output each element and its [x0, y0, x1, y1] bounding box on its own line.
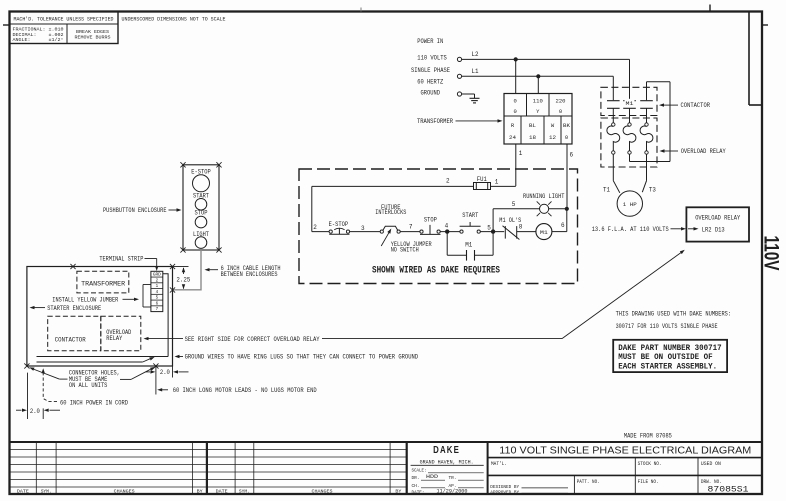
svg-text:110V: 110V — [760, 236, 783, 271]
svg-text:SCALE:: SCALE: — [412, 468, 427, 474]
svg-text:EACH STARTER ASSEMBLY.: EACH STARTER ASSEMBLY. — [618, 362, 717, 371]
svg-text:SYM.: SYM. — [239, 488, 250, 494]
svg-text:MACH'D. TOLERANCE UNLESS SPECI: MACH'D. TOLERANCE UNLESS SPECIFIED — [14, 17, 114, 23]
drawing usage note — [616, 311, 732, 331]
wire node2 to e-stop — [312, 231, 329, 233]
material / stock row — [488, 458, 762, 476]
STOP button — [195, 210, 208, 228]
contactor designator M1 — [625, 99, 635, 107]
junction node 5 — [491, 229, 495, 233]
install yellow jumper label — [52, 296, 139, 303]
dimension 2.0 right — [146, 366, 189, 395]
svg-text:2: 2 — [313, 224, 317, 231]
ground symbol — [462, 94, 480, 103]
svg-text:GRAND HAVEN, MICH.: GRAND HAVEN, MICH. — [420, 459, 474, 465]
svg-text:BK: BK — [563, 122, 571, 129]
svg-text:60 INCH LONG MOTOR LEADS - NO: 60 INCH LONG MOTOR LEADS - NO LUGS MOTOR… — [173, 387, 317, 394]
LIGHT lens — [193, 231, 209, 248]
wire L2 — [462, 51, 630, 59]
drawing number — [708, 485, 749, 495]
svg-text:12: 12 — [549, 134, 556, 141]
svg-text:NO SWITCH: NO SWITCH — [391, 247, 419, 254]
svg-text:CHANGES: CHANGES — [312, 488, 333, 494]
ground bus wire 2 — [37, 357, 155, 362]
leader to LR2 box — [562, 250, 685, 339]
wire 6 transformer secondary — [567, 144, 574, 209]
ground wires note — [175, 354, 419, 361]
tolerance note block — [10, 12, 226, 44]
starter enclosure label — [30, 305, 102, 312]
svg-text:MADE FROM 87085: MADE FROM 87085 — [624, 432, 672, 439]
svg-text:SEE RIGHT SIDE FOR CORRECT OVE: SEE RIGHT SIDE FOR CORRECT OVERLOAD RELA… — [185, 336, 320, 343]
svg-text:ANGLE: ±1/2°: ANGLE: ±1/2° — [13, 37, 64, 43]
running light lamp — [523, 193, 565, 216]
wire node7 — [400, 224, 420, 232]
wire 2 top — [312, 178, 474, 187]
svg-text:PATT. NO.: PATT. NO. — [577, 479, 600, 485]
pushbutton STOP NC — [420, 217, 441, 235]
svg-text:0: 0 — [514, 98, 517, 105]
dimension 2.25 — [173, 267, 191, 290]
terminal strip TB1 — [151, 271, 163, 312]
wire node8 — [517, 231, 536, 233]
svg-text:6: 6 — [561, 222, 565, 229]
revision table — [10, 442, 407, 494]
svg-text:UNDERSCORED DIMENSIONS NOT TO: UNDERSCORED DIMENSIONS NOT TO SCALE — [122, 17, 226, 23]
svg-text:6: 6 — [570, 152, 574, 159]
svg-text:START: START — [462, 212, 478, 219]
svg-text:1: 1 — [495, 178, 499, 185]
contactor M1 dashed enclosure — [601, 87, 657, 115]
svg-text:60 HERTZ: 60 HERTZ — [417, 79, 443, 86]
starter enclosure box — [24, 264, 175, 369]
svg-text:0: 0 — [559, 108, 562, 115]
overload relay label — [660, 148, 727, 155]
wire 2 drop — [312, 186, 318, 231]
svg-text:GRD: GRD — [153, 274, 162, 278]
company block DAKE — [411, 445, 484, 496]
svg-text:OVERLOAD RELAY: OVERLOAD RELAY — [681, 148, 726, 155]
junction on L2 to transformer — [514, 57, 518, 93]
svg-text:CHANGES: CHANGES — [114, 488, 135, 494]
pushbutton START NO — [460, 212, 481, 233]
motor 1 HP — [617, 191, 642, 216]
svg-text:CONTACTOR: CONTACTOR — [681, 102, 711, 109]
svg-text:BREAK EDGES: BREAK EDGES — [76, 29, 109, 35]
yellow jumper callout — [381, 229, 432, 254]
svg-text:HDD: HDD — [426, 474, 438, 480]
svg-text:APPROVED BY: APPROVED BY — [490, 489, 519, 495]
fuse FU1 — [474, 176, 491, 190]
svg-text:110 VOLT SINGLE PHASE ELECTRIC: 110 VOLT SINGLE PHASE ELECTRICAL DIAGRAM — [499, 445, 751, 456]
sheet voltage tab 110V — [760, 236, 783, 271]
contactor M1 pole 2 contact — [623, 101, 636, 123]
svg-text:110: 110 — [533, 98, 543, 105]
svg-text:M1: M1 — [540, 229, 549, 236]
svg-text:4: 4 — [445, 222, 449, 229]
cable length note — [205, 265, 281, 278]
svg-text:PUSHBUTTON ENCLOSURE: PUSHBUTTON ENCLOSURE — [103, 207, 167, 214]
svg-text:2.25: 2.25 — [176, 277, 190, 284]
junction node 6 — [565, 207, 569, 211]
wire T3 motor lead — [642, 154, 656, 193]
pushbutton enclosure box — [180, 162, 221, 252]
dimension 2.0 left — [16, 373, 60, 419]
svg-text:RELAY: RELAY — [106, 335, 122, 342]
contactor M1 pole 1 contact — [607, 101, 620, 123]
svg-text:STARTER ENCLOSURE: STARTER ENCLOSURE — [47, 305, 101, 312]
svg-text:DESIGNED BY: DESIGNED BY — [490, 484, 519, 490]
svg-text:SYM.: SYM. — [41, 488, 52, 494]
svg-text:GROUND WIRES TO HAVE RING LUGS: GROUND WIRES TO HAVE RING LUGS SO THAT T… — [185, 354, 419, 361]
svg-text:STOCK NO.: STOCK NO. — [638, 461, 662, 467]
svg-text:DAKE: DAKE — [433, 445, 460, 456]
jumper wire pole3 feed — [630, 82, 671, 162]
svg-text:T1: T1 — [603, 186, 610, 193]
svg-text:FU1: FU1 — [477, 176, 487, 183]
svg-text:2.0: 2.0 — [160, 369, 170, 376]
svg-text:0: 0 — [514, 108, 517, 115]
svg-text:220: 220 — [556, 98, 566, 105]
svg-text:24: 24 — [509, 134, 517, 141]
approval row — [490, 475, 722, 495]
svg-text:DATE: DATE — [17, 488, 29, 494]
svg-text:OVERLOAD RELAY: OVERLOAD RELAY — [695, 214, 740, 221]
svg-text:110 VOLTS: 110 VOLTS — [417, 55, 447, 62]
svg-text:TRANSFORMER: TRANSFORMER — [81, 280, 125, 287]
svg-text:STOP: STOP — [424, 217, 437, 224]
svg-text:POWER IN: POWER IN — [417, 38, 443, 45]
wire 1 transformer secondary — [516, 144, 523, 186]
overload relay dashed box — [101, 316, 141, 350]
pushbutton enclosure label — [103, 207, 182, 214]
drawing title — [488, 445, 762, 457]
wire L1 — [462, 68, 614, 76]
svg-text:GROUND: GROUND — [421, 90, 441, 97]
svg-text:2.0: 2.0 — [30, 408, 40, 415]
svg-text:L2: L2 — [472, 51, 479, 58]
svg-text:LR2 D13: LR2 D13 — [702, 226, 725, 233]
contactor label — [659, 102, 710, 109]
svg-text:CH.: CH. — [412, 483, 420, 489]
terminal L2 input — [457, 57, 461, 61]
svg-text:INSTALL YELLOW JUMBER: INSTALL YELLOW JUMBER — [52, 296, 118, 303]
svg-text:INTERLOCKS: INTERLOCKS — [375, 209, 406, 216]
svg-text:3: 3 — [361, 225, 365, 232]
svg-text:SHOWN WIRED AS DAKE REQUIRES: SHOWN WIRED AS DAKE REQUIRES — [372, 265, 500, 276]
terminal L1 input — [457, 74, 461, 78]
wire node4 — [440, 222, 460, 231]
svg-text:13.6 F.L.A. AT 110 VOLTS: 13.6 F.L.A. AT 110 VOLTS — [592, 226, 669, 233]
wire T1 motor lead — [603, 154, 620, 193]
svg-text:300717 FOR 110 VOLTS SINGLE PH: 300717 FOR 110 VOLTS SINGLE PHASE — [616, 323, 718, 330]
contactor M1 pole 3 contact — [640, 101, 653, 123]
junction node 4 — [445, 229, 449, 233]
svg-text:0: 0 — [565, 134, 568, 141]
control circuit dashed boundary — [299, 169, 578, 284]
terminal strip label — [99, 256, 158, 271]
svg-text:L1: L1 — [472, 68, 479, 75]
svg-text:ON ALL UNITS: ON ALL UNITS — [69, 382, 108, 389]
ground bus wire — [37, 356, 169, 358]
svg-text:1 HP: 1 HP — [623, 201, 637, 208]
wire 1 fuse to transformer — [491, 178, 516, 186]
svg-text:T3: T3 — [649, 186, 656, 193]
svg-text:5: 5 — [512, 201, 516, 208]
svg-text:RUNNING LIGHT: RUNNING LIGHT — [523, 193, 565, 200]
yellow jumper bracket — [143, 285, 151, 308]
svg-text:1: 1 — [519, 150, 523, 157]
svg-text:DAKE PART NUMBER 300717: DAKE PART NUMBER 300717 — [618, 344, 722, 353]
svg-text:MAT'L.: MAT'L. — [491, 461, 507, 467]
svg-text:7: 7 — [409, 224, 413, 231]
svg-text:DATE: DATE — [216, 488, 228, 494]
svg-text:M1: M1 — [626, 100, 635, 107]
svg-text:MUST BE ON OUTSIDE OF: MUST BE ON OUTSIDE OF — [618, 353, 713, 362]
terminal ground input — [457, 92, 461, 96]
wire L2 drop to contactor pole 2 — [629, 59, 631, 100]
wire node3 — [350, 225, 381, 232]
transformer T1 terminal block — [504, 94, 572, 145]
svg-text:CONTACTOR: CONTACTOR — [55, 336, 86, 343]
M1 auxiliary holding contact — [447, 232, 493, 261]
title block frame — [10, 442, 763, 494]
svg-text:DR.: DR. — [412, 475, 420, 481]
cable between enclosures — [173, 250, 202, 290]
motor leads note — [157, 387, 317, 394]
overload heater element 3 — [640, 123, 653, 154]
cable entry hole mark — [170, 287, 175, 292]
ground wire from strip — [163, 274, 168, 357]
svg-text:2: 2 — [446, 178, 450, 185]
wire node5 — [480, 224, 504, 231]
coil M1 — [536, 224, 552, 240]
dake part number box — [613, 340, 727, 372]
svg-text:FRACTIONAL: ±.010: FRACTIONAL: ±.010 — [13, 27, 64, 33]
svg-text:TR.: TR. — [449, 475, 457, 481]
svg-text:REMOVE BURRS: REMOVE BURRS — [75, 34, 111, 40]
svg-text:STOP: STOP — [195, 210, 208, 217]
svg-text:M1: M1 — [465, 241, 472, 248]
shown-wired caption — [372, 265, 500, 276]
svg-text:60 INCH POWER IN CORD: 60 INCH POWER IN CORD — [60, 399, 128, 406]
E-STOP button — [191, 169, 211, 192]
svg-text:5: 5 — [487, 224, 491, 231]
overload relay part box LR2 D13 — [686, 207, 749, 241]
wire running light to node 6 — [549, 208, 567, 210]
svg-text:DATE:: DATE: — [412, 490, 425, 496]
FLA rating note — [592, 226, 699, 233]
contactor dashed box — [48, 316, 101, 350]
wire 6 coil return — [552, 209, 567, 232]
svg-text:BY: BY — [197, 488, 203, 494]
pushbutton E-STOP NC — [329, 221, 350, 234]
transformer label leader — [417, 118, 503, 125]
overload contact M1 OL'S NC — [499, 217, 523, 239]
wire L1 drop to contactor pole 1 — [612, 76, 614, 100]
svg-text:DECIMAL: ±.002: DECIMAL: ±.002 — [13, 32, 64, 38]
svg-text:87085S1: 87085S1 — [708, 485, 749, 495]
connector holes note — [29, 367, 155, 389]
svg-text:E-STOP: E-STOP — [329, 221, 349, 228]
svg-text:BL: BL — [529, 122, 536, 129]
power-in cord — [42, 368, 129, 406]
wire 5 running light branch — [493, 201, 539, 231]
see-right-side note — [144, 336, 563, 343]
future interlocks jumper — [375, 204, 406, 233]
svg-text:TERMINAL STRIP: TERMINAL STRIP — [99, 256, 143, 263]
junction on L1 to transformer — [536, 74, 540, 93]
svg-text:BY: BY — [395, 488, 401, 494]
svg-text:THIS DRAWING USED WITH DAKE NU: THIS DRAWING USED WITH DAKE NUMBERS: — [616, 311, 732, 318]
svg-text:18: 18 — [529, 134, 536, 141]
svg-text:TRANSFORMER: TRANSFORMER — [417, 118, 453, 125]
power-in source labels — [411, 38, 450, 97]
overload heater element 1 — [607, 123, 620, 154]
overload relay dashed enclosure — [601, 118, 657, 167]
svg-text:USED ON: USED ON — [701, 461, 721, 467]
START button — [193, 193, 209, 210]
svg-text:SINGLE PHASE: SINGLE PHASE — [411, 67, 450, 74]
svg-text:FILE NO.: FILE NO. — [638, 479, 659, 485]
transformer dashed box — [77, 271, 129, 293]
svg-text:8: 8 — [519, 224, 523, 231]
made-from note — [624, 432, 672, 439]
svg-text:BETWEEN ENCLOSURES: BETWEEN ENCLOSURES — [221, 271, 278, 278]
overload heater element 2 — [623, 123, 636, 154]
